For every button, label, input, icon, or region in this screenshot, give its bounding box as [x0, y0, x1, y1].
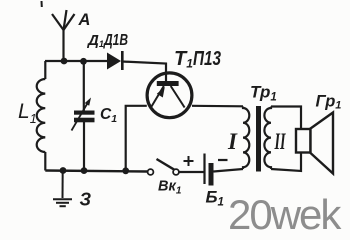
transformer Tp1 primary winding I: [243, 107, 249, 170]
svg-text:Д1: Д1: [86, 32, 104, 49]
svg-text:С1: С1: [100, 106, 117, 125]
label L1: [18, 100, 37, 126]
antenna: [52, 10, 75, 61]
label C1: [100, 106, 117, 125]
node C1 top junction: [80, 58, 87, 65]
wire collector to transformer: [192, 105, 243, 108]
svg-text:Тр1: Тр1: [250, 83, 277, 104]
wire secondary top to speaker: [271, 107, 301, 130]
svg-text:Вк1: Вк1: [158, 179, 182, 197]
node C1 bottom junction: [81, 167, 88, 174]
node ground junction: [60, 167, 67, 174]
speaker Гр1: [296, 113, 333, 174]
transformer Tp1 secondary winding II: [264, 107, 271, 170]
label minus: [218, 159, 228, 161]
switch Вк1: [148, 159, 179, 175]
wire switch to battery: [179, 171, 203, 173]
transistor T1 (П13): [147, 73, 192, 118]
node antenna junction: [61, 58, 68, 65]
label Вк1: [158, 179, 182, 197]
wire battery to transformer primary bottom: [214, 169, 244, 172]
wire bottom rail: [45, 171, 147, 172]
label Гр1: [316, 93, 342, 112]
stray mark top-left: [41, 1, 43, 7]
wire top rail: [45, 60, 108, 62]
diode D1 (Д1 Д1В): [107, 51, 122, 70]
svg-text:З: З: [80, 190, 92, 210]
coil L1: [37, 61, 46, 171]
label Д1 Д1В: [86, 32, 128, 49]
label +: [184, 156, 194, 166]
label Б1: [206, 188, 224, 209]
label З (ground): [80, 190, 92, 210]
wire emitter to bottom rail: [126, 106, 147, 171]
svg-text:Б1: Б1: [206, 188, 224, 209]
label I (primary): [227, 129, 238, 154]
label A (antenna): [78, 11, 91, 29]
svg-text:L1: L1: [18, 100, 37, 126]
node emitter junction: [122, 167, 129, 174]
svg-text:Т1: Т1: [174, 48, 193, 71]
label Tp1: [250, 83, 277, 104]
battery Б1: [205, 154, 214, 186]
label II (secondary): [274, 129, 286, 154]
ground: [53, 171, 72, 207]
svg-text:Гр1: Гр1: [316, 93, 342, 112]
svg-text:I: I: [227, 129, 238, 154]
capacitor C1 (variable): [72, 61, 95, 171]
svg-text:20wek: 20wek: [228, 191, 342, 237]
wire secondary bottom to speaker: [271, 153, 301, 172]
svg-text:Д1В: Д1В: [103, 32, 128, 49]
wire diode to base corner: [122, 62, 166, 83]
svg-text:А: А: [78, 11, 91, 29]
label T1 П13: [174, 48, 221, 71]
watermark 20wek: [228, 191, 342, 238]
svg-text:П13: П13: [193, 48, 221, 70]
transformer core: [256, 106, 261, 172]
svg-text:II: II: [274, 129, 286, 154]
